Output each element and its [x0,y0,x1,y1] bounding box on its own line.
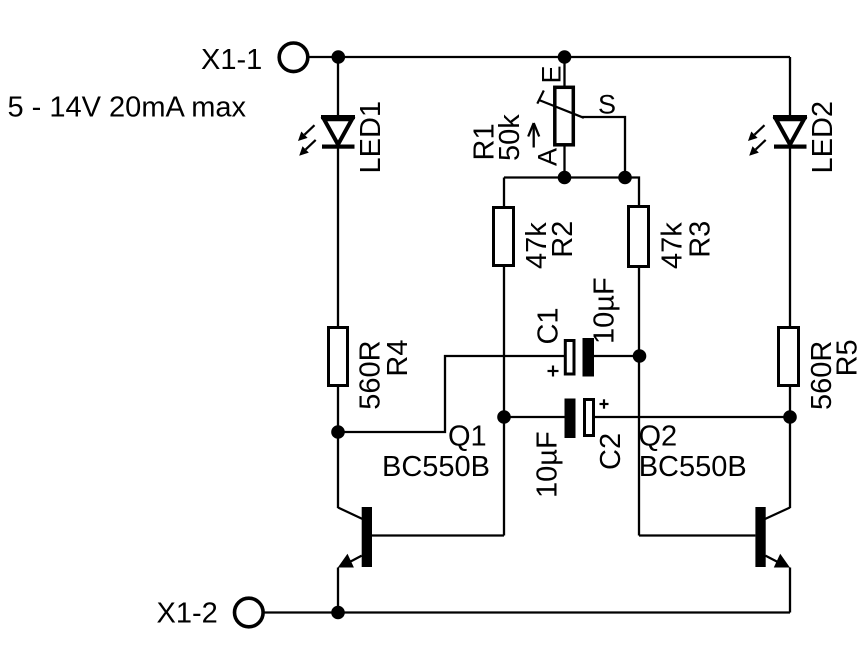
resistor R2 [494,208,514,266]
svg-text:10µF: 10µF [532,431,564,498]
svg-text:LED1: LED1 [355,101,387,174]
terminal X1-2 [235,598,264,627]
potentiometer adjust arrow [528,123,539,148]
svg-text:10µF: 10µF [589,277,621,344]
svg-text:R2: R2 [547,221,579,258]
svg-text:S: S [598,90,616,120]
svg-text:BC550B: BC550B [382,451,490,483]
svg-text:LED2: LED2 [807,101,839,174]
LED2 light arrow 2 [749,140,766,156]
LED LED2 [773,115,807,149]
LED1 light arrow 2 [299,140,316,156]
terminal X1-1 [279,43,308,72]
svg-text:5 - 14V 20mA max: 5 - 14V 20mA max [8,92,247,124]
wire Q2 base [639,534,755,536]
LED2 light arrow 1 [748,125,765,141]
potentiometer R1 body [555,87,574,145]
svg-text:BC550B: BC550B [639,451,747,483]
wire LED1 top [337,57,339,117]
capacitor C2 negative plate [565,399,576,439]
transistor Q1 emitter arrow [338,554,354,568]
wire bottom ground rail [264,611,790,613]
svg-text:A: A [533,148,563,166]
LED1 light arrow 1 [298,125,315,141]
node junction Q1 base / C2 [497,410,511,424]
svg-text:Q1: Q1 [448,421,487,453]
wire pot top drop [563,57,565,86]
resistor R4 [329,328,348,386]
wire Q1 collector node to C1 [338,356,564,432]
svg-text:50k: 50k [494,114,526,161]
wire R4 to Q1 collector [337,386,339,508]
node junction Q1 collector / C1 [331,425,345,439]
C1 plus sign [548,366,559,377]
wire pot bottom to mid rail [563,146,565,178]
svg-text:R5: R5 [832,339,864,376]
wire LED2 top [789,57,791,117]
wire mid rail under pot [504,178,639,207]
transistor Q2 emitter arrow [774,554,790,568]
svg-text:C2: C2 [595,433,627,470]
wire Q1 base [372,534,504,536]
wire R2 top drop [503,178,505,208]
transistor Q2 collector lead [765,508,790,520]
resistor R3 [629,207,649,267]
svg-text:X1-1: X1-1 [201,44,262,76]
wire C2 to Q2 collector node [595,416,790,418]
svg-text:R4: R4 [382,340,414,377]
wire R3 bottom to Q2 base node [638,267,640,536]
node junction Q2 collector / C2 / R5 [783,410,797,424]
wire Q1 emitter to ground rail [337,568,339,613]
wire LED1 to R4 [337,146,339,327]
wire top rail V+ [310,56,791,58]
wire R2 bottom to Q1 base node [503,266,505,536]
resistor R5 [779,328,799,386]
node junction Q2 base / C1 [633,349,647,363]
node junction top-left [332,50,346,64]
node junction pot A [558,171,572,185]
transistor Q2 emitter lead [765,556,783,565]
transistor Q2 base bar [755,507,765,567]
capacitor C1 positive plate [565,341,574,375]
potentiometer R1 wiper T-bar [537,91,544,104]
wire LED2 to R5 [789,146,791,327]
svg-text:E: E [537,65,567,83]
node junction ground rail [331,606,345,620]
transistor Q1 collector lead [338,508,363,520]
node junction top pot [558,50,572,64]
wire Q2 emitter to ground rail [789,568,791,613]
wire C1 to Q2 base node [594,355,640,357]
svg-text:R3: R3 [685,221,717,258]
wire Q1 base node to C2 [504,416,565,418]
svg-text:Q2: Q2 [639,421,678,453]
transistor Q1 base bar [362,507,372,567]
capacitor C2 positive plate [585,400,594,436]
svg-text:C1: C1 [533,307,565,344]
C2 plus sign [600,399,609,408]
wire wiper S to mid rail [582,117,625,178]
capacitor C1 negative plate [583,338,595,377]
node junction pot S [618,171,632,185]
LED LED1 [321,115,355,149]
potentiometer R1 wiper diagonal [539,100,584,118]
transistor Q1 emitter lead [344,556,362,565]
wire R5 to Q2 collector [789,386,791,508]
svg-text:X1-2: X1-2 [157,598,218,630]
